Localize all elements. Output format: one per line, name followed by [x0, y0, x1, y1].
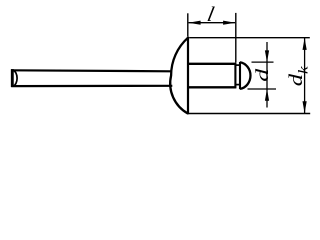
dimension l arrowhead left: [188, 21, 200, 25]
dimension dk extension line bottom: [187, 113, 310, 115]
sleeve top line: [187, 63, 236, 65]
sleeve bottom line: [187, 86, 236, 88]
dimension dk line: [304, 38, 306, 114]
dome head flat face: [187, 37, 189, 115]
dimension dk arrowhead up: [303, 38, 307, 50]
dimension d arrowhead up: [265, 89, 269, 101]
dimension d line: [266, 42, 268, 108]
mandrel stem bottom line: [11, 85, 172, 87]
mandrel tip bar: [11, 69, 14, 87]
sleeve end line: [234, 63, 236, 89]
mandrel neck bottom line: [235, 84, 240, 86]
dimension dk extension line top: [189, 37, 310, 39]
svg-text:d: d: [252, 68, 272, 81]
dimension l extension line right: [235, 13, 237, 63]
dimension d arrowhead down: [265, 50, 269, 62]
dimension l extension line left: [187, 13, 189, 36]
mandrel head ball flat face: [239, 62, 241, 89]
dimension l arrowhead right: [223, 21, 235, 25]
dimension d extension line top: [252, 61, 274, 63]
mandrel head ball arc: [240, 62, 250, 89]
mandrel neck top line: [235, 64, 240, 66]
dimension l line: [189, 22, 236, 24]
dimension dk arrowhead down: [303, 101, 307, 113]
mandrel stem top line: [11, 70, 171, 71]
dimension d extension line bottom: [248, 88, 277, 90]
rivet dome head arc: [170, 38, 188, 114]
mandrel tip arc: [13, 70, 17, 86]
